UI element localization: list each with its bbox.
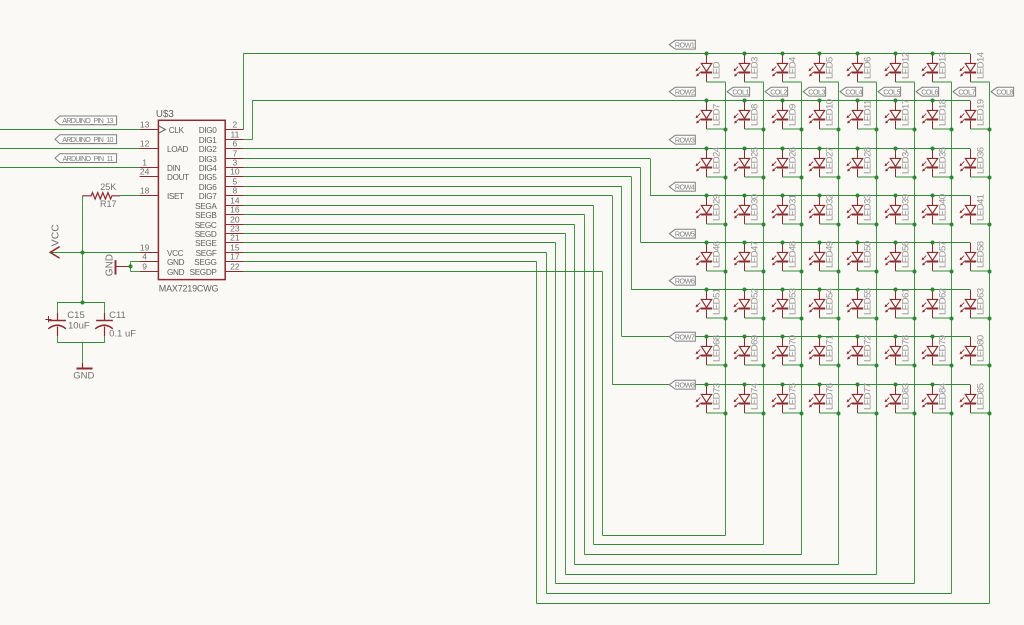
- LED LED36: [960, 147, 990, 177]
- junction row1 led3 anode: [781, 52, 785, 56]
- LED LED35: [922, 147, 952, 177]
- LED LED84: [922, 382, 952, 413]
- junction col4 row5 cathode: [837, 270, 841, 274]
- wire net DIG1/ROW2: [244, 101, 971, 140]
- junction row5 led5 anode: [856, 241, 860, 245]
- svg-text:LED51: LED51: [711, 288, 722, 315]
- junction capacitor rail: [81, 301, 85, 305]
- junction col6 row7 cathode: [913, 364, 917, 368]
- net label flag ROW4: [669, 182, 695, 191]
- svg-text:DIG6: DIG6: [199, 183, 218, 192]
- pin 16 SEGB: [195, 204, 243, 220]
- wire capacitor bottom rail: [58, 342, 105, 344]
- svg-text:LED70: LED70: [787, 335, 798, 362]
- LED LED17: [885, 99, 915, 129]
- svg-text:ISET: ISET: [167, 192, 184, 201]
- junction row6 led2 anode: [743, 288, 747, 292]
- wire net DIG3/ROW4: [244, 159, 971, 196]
- LED LED30: [734, 194, 764, 224]
- wire net SEGA/COL2: [244, 82, 764, 545]
- LED LED6: [847, 54, 877, 82]
- pin 9 GND: [140, 261, 185, 277]
- junction row7 led4 anode: [818, 335, 822, 339]
- junction row4 led3 anode: [781, 194, 785, 198]
- svg-text:COL2: COL2: [770, 87, 787, 96]
- svg-text:LED24: LED24: [711, 146, 722, 174]
- junction row8 led6 anode: [894, 383, 898, 387]
- LED LED74: [734, 382, 764, 413]
- svg-text:LED52: LED52: [749, 288, 760, 315]
- junction col1 row8 cathode: [724, 412, 728, 416]
- junction col4 row4 cathode: [837, 223, 841, 227]
- svg-text:LED17: LED17: [900, 99, 911, 126]
- junction row6 led7 anode: [931, 288, 935, 292]
- pin 17 SEGG: [194, 251, 243, 267]
- wire R17 to ISET: [120, 195, 139, 197]
- svg-text:13: 13: [140, 119, 150, 129]
- junction col6 row5 cathode: [913, 270, 917, 274]
- junction col1 row5 cathode: [724, 270, 728, 274]
- junction row5 led4 anode: [818, 241, 822, 245]
- svg-text:CLK: CLK: [169, 126, 185, 135]
- wire net ARDUINO_PIN_13 to CLK: [0, 129, 140, 131]
- junction row1 led7 anode: [931, 52, 935, 56]
- junction col5 row7 cathode: [875, 364, 879, 368]
- junction row4 led2 anode: [743, 194, 747, 198]
- junction col1 row7 cathode: [724, 364, 728, 368]
- net label flag ROW5: [669, 229, 695, 238]
- svg-text:LOAD: LOAD: [167, 145, 188, 154]
- junction col2 row2 cathode: [762, 128, 766, 132]
- junction col6 row6 cathode: [913, 317, 917, 321]
- junction row7 led6 anode: [894, 335, 898, 339]
- svg-text:DOUT: DOUT: [167, 173, 189, 182]
- svg-text:LED73: LED73: [711, 383, 722, 410]
- svg-text:C11: C11: [109, 310, 126, 321]
- pin 13 CLK: [140, 119, 185, 135]
- wire net DIG7/ROW8: [244, 196, 971, 385]
- LED LED52: [734, 288, 764, 318]
- svg-text:LED9: LED9: [787, 104, 798, 126]
- net label flag COL5: [878, 87, 901, 96]
- LED LED48: [772, 241, 802, 271]
- net label flag ROW1: [669, 40, 695, 49]
- svg-text:MAX7219CWG: MAX7219CWG: [159, 284, 219, 294]
- svg-text:LED19: LED19: [975, 99, 986, 126]
- junction row5 led3 anode: [781, 241, 785, 245]
- junction col1 row2 cathode: [724, 128, 728, 132]
- junction row5 led7 anode: [931, 241, 935, 245]
- svg-text:LED34: LED34: [900, 146, 911, 174]
- junction col8 row7 cathode: [988, 364, 992, 368]
- LED LED69: [734, 335, 764, 365]
- LED LED54: [809, 287, 839, 318]
- svg-text:17: 17: [230, 251, 240, 261]
- wire net SEGE/COL6: [244, 82, 915, 584]
- pin 22 SEGDP: [190, 261, 244, 277]
- svg-text:LED11: LED11: [862, 100, 873, 126]
- svg-text:DIG7: DIG7: [199, 192, 218, 201]
- svg-text:COL4: COL4: [845, 87, 862, 96]
- junction row5 led1 anode: [705, 241, 709, 245]
- junction row3 led6 anode: [894, 147, 898, 151]
- pin 6 DIG2: [199, 138, 244, 154]
- net label flag COL6: [916, 87, 939, 96]
- pin 15 SEGF: [196, 242, 244, 257]
- svg-text:LED49: LED49: [824, 241, 835, 268]
- svg-text:LED80: LED80: [975, 335, 986, 362]
- svg-text:ROW1: ROW1: [675, 40, 695, 49]
- LED LED18: [922, 99, 952, 129]
- LED LED3: [734, 54, 764, 82]
- wire net SEGB/COL3: [244, 82, 802, 555]
- svg-text:LED61: LED61: [900, 288, 911, 315]
- svg-text:LED72: LED72: [862, 335, 873, 362]
- capacitor C15 10uF: [45, 310, 90, 336]
- junction row1 led6 anode: [894, 52, 898, 56]
- svg-text:LED10: LED10: [824, 99, 835, 126]
- power symbol VCC: [50, 224, 62, 258]
- LED LED34: [885, 146, 915, 177]
- svg-text:SEGE: SEGE: [195, 239, 217, 248]
- svg-text:LED14: LED14: [975, 51, 986, 79]
- op IC U3 MAX7219CWG body: [158, 120, 225, 279]
- LED LED41: [960, 194, 990, 224]
- svg-text:LED46: LED46: [711, 241, 722, 268]
- svg-text:LED68: LED68: [711, 335, 722, 362]
- wire net ARDUINO_PIN_10 to LOAD: [0, 148, 140, 150]
- svg-text:24: 24: [140, 166, 150, 176]
- junction row2 led5 anode: [856, 99, 860, 103]
- svg-text:GND: GND: [73, 371, 94, 382]
- svg-text:ARDUINO_PIN_13: ARDUINO_PIN_13: [62, 116, 113, 125]
- junction row4 led6 anode: [894, 194, 898, 198]
- svg-text:LED58: LED58: [975, 241, 986, 268]
- svg-text:LED30: LED30: [749, 194, 760, 221]
- svg-text:ARDUINO_PIN_11: ARDUINO_PIN_11: [62, 154, 113, 163]
- pin 1 DIN: [140, 157, 181, 173]
- svg-text:GND: GND: [167, 258, 185, 267]
- svg-text:LED77: LED77: [862, 383, 873, 410]
- LED LED14: [960, 51, 990, 82]
- junction row1 led1 anode: [705, 52, 709, 56]
- wire C15 top stub: [57, 302, 59, 313]
- LED LED55: [847, 288, 877, 318]
- svg-text:LED63: LED63: [975, 288, 986, 315]
- LED LED31: [772, 194, 802, 224]
- junction col2 row6 cathode: [762, 317, 766, 321]
- junction row4 led7 anode: [931, 194, 935, 198]
- svg-text:LED28: LED28: [862, 147, 873, 174]
- LED LED72: [847, 335, 877, 365]
- junction row1 led5 anode: [856, 52, 860, 56]
- svg-text:VCC: VCC: [50, 224, 62, 247]
- svg-text:ROW5: ROW5: [675, 229, 695, 238]
- junction col4 row8 cathode: [837, 412, 841, 416]
- svg-text:DIG5: DIG5: [199, 173, 218, 182]
- net label flag COL8: [991, 87, 1014, 96]
- LED LED76: [809, 383, 839, 413]
- junction row6 led1 anode: [705, 288, 709, 292]
- svg-text:LED35: LED35: [937, 147, 948, 174]
- junction row7 led3 anode: [781, 335, 785, 339]
- LED LED46: [696, 241, 726, 271]
- svg-text:U$3: U$3: [156, 109, 175, 120]
- svg-text:SEGG: SEGG: [194, 258, 216, 267]
- svg-text:LED33: LED33: [862, 194, 873, 221]
- junction GND pins: [129, 264, 133, 268]
- svg-text:SEGD: SEGD: [195, 230, 217, 239]
- svg-text:LED4: LED4: [787, 56, 798, 79]
- junction col2 row4 cathode: [762, 223, 766, 227]
- LED LED57: [922, 241, 952, 271]
- net label flag COL4: [840, 87, 863, 96]
- junction col7 row4 cathode: [950, 223, 954, 227]
- ground symbol GND (at IC): [104, 254, 130, 276]
- junction col7 row7 cathode: [950, 364, 954, 368]
- CLK clock marker: [158, 126, 165, 134]
- junction col3 row5 cathode: [800, 270, 804, 274]
- wire net DIG0/ROW1: [244, 54, 971, 130]
- svg-text:LED74: LED74: [749, 382, 760, 410]
- junction col1 row3 cathode: [724, 176, 728, 180]
- junction row3 led2 anode: [743, 147, 747, 151]
- junction row2 led2 anode: [743, 99, 747, 103]
- svg-text:10uF: 10uF: [68, 320, 90, 331]
- svg-text:COL8: COL8: [996, 87, 1013, 96]
- pin 24 DOUT: [140, 166, 190, 182]
- LED LED71: [809, 335, 839, 365]
- svg-text:ROW2: ROW2: [675, 87, 695, 96]
- pin 7 DIG3: [199, 148, 244, 164]
- svg-text:LED78: LED78: [900, 335, 911, 362]
- junction col2 row8 cathode: [762, 412, 766, 416]
- svg-text:COL7: COL7: [958, 87, 975, 96]
- LED LED28: [847, 147, 877, 177]
- junction col5 row4 cathode: [875, 223, 879, 227]
- pin 8 DIG7: [199, 185, 244, 201]
- junction row3 led5 anode: [856, 147, 860, 151]
- wire C11 bottom stub: [104, 336, 106, 343]
- pin 11 DIG1: [199, 129, 244, 145]
- junction row6 led6 anode: [894, 288, 898, 292]
- net label flag ROW3: [669, 135, 695, 144]
- svg-text:ROW6: ROW6: [675, 276, 695, 285]
- wire VCC rail vertical: [82, 196, 84, 303]
- junction row3 led4 anode: [818, 147, 822, 151]
- svg-text:8: 8: [233, 185, 238, 195]
- svg-text:ROW4: ROW4: [675, 182, 695, 191]
- junction row6 led3 anode: [781, 288, 785, 292]
- svg-text:GND: GND: [167, 268, 185, 277]
- wire to GND symbol: [82, 343, 84, 363]
- junction col1 row6 cathode: [724, 317, 728, 321]
- junction row6 led5 anode: [856, 288, 860, 292]
- svg-text:LED25: LED25: [749, 147, 760, 174]
- svg-text:LED31: LED31: [787, 194, 798, 221]
- LED LED19: [960, 99, 990, 129]
- svg-text:21: 21: [230, 232, 240, 242]
- junction row8 led2 anode: [743, 383, 747, 387]
- junction col6 row4 cathode: [913, 223, 917, 227]
- wire net SEGG/COL8: [244, 82, 990, 604]
- junction col3 row6 cathode: [800, 317, 804, 321]
- pin 3 DIG4: [199, 157, 244, 173]
- pin 14 SEGA: [195, 195, 243, 211]
- pin 10 DIG5: [199, 166, 244, 182]
- junction col3 row2 cathode: [800, 128, 804, 132]
- svg-text:0.1 uF: 0.1 uF: [109, 328, 136, 339]
- svg-text:LED7: LED7: [711, 104, 722, 126]
- wire C15 bottom stub: [57, 336, 59, 343]
- svg-text:GND: GND: [104, 254, 115, 276]
- svg-text:LED54: LED54: [824, 287, 835, 315]
- svg-text:LED29: LED29: [711, 194, 722, 221]
- net label flag ARDUINO_PIN_11: [55, 154, 117, 163]
- wire net SEGDP/COL1: [244, 82, 726, 536]
- net label flag COL3: [803, 87, 826, 96]
- LED LED63: [960, 288, 990, 318]
- net label flag ARDUINO_PIN_10: [55, 135, 117, 144]
- LED LED25: [734, 147, 764, 177]
- svg-text:COL3: COL3: [808, 87, 825, 96]
- junction col1 row4 cathode: [724, 223, 728, 227]
- net label flag ROW2: [669, 87, 695, 96]
- junction col6 row3 cathode: [913, 176, 917, 180]
- junction row5 led2 anode: [743, 241, 747, 245]
- svg-text:LED47: LED47: [749, 241, 760, 268]
- LED LED27: [809, 147, 839, 177]
- LED LED75: [772, 383, 802, 413]
- svg-text:LED85: LED85: [975, 383, 986, 410]
- svg-text:ROW7: ROW7: [675, 332, 695, 341]
- junction col8 row3 cathode: [988, 176, 992, 180]
- LED LED: [696, 54, 726, 82]
- LED LED83: [885, 383, 915, 413]
- svg-text:LED69: LED69: [749, 335, 760, 362]
- wire net SEGF/COL7: [244, 82, 952, 594]
- wire net VCC horizontal: [51, 252, 140, 254]
- net label flag ARDUINO_PIN_13: [55, 116, 117, 125]
- junction row4 led5 anode: [856, 194, 860, 198]
- junction col6 row8 cathode: [913, 412, 917, 416]
- svg-text:LED12: LED12: [900, 52, 911, 79]
- pin 5 DIG6: [199, 176, 244, 192]
- svg-text:LED26: LED26: [787, 147, 798, 174]
- svg-text:COL1: COL1: [732, 87, 749, 96]
- LED LED73: [696, 383, 726, 413]
- pin 2 DIG0: [199, 119, 244, 135]
- LED LED78: [885, 335, 915, 365]
- wire GND pins loop: [131, 262, 140, 272]
- svg-text:12: 12: [140, 138, 150, 148]
- svg-text:LED71: LED71: [824, 335, 835, 362]
- svg-text:DIG0: DIG0: [199, 126, 218, 135]
- net label flag COL1: [727, 87, 750, 96]
- capacitor C11 0.1 uF: [95, 310, 136, 340]
- LED LED24: [696, 146, 726, 177]
- pin 18 ISET: [140, 185, 185, 201]
- pin 4 GND: [140, 251, 185, 267]
- LED LED50: [847, 241, 877, 271]
- svg-text:SEGC: SEGC: [195, 221, 217, 230]
- junction row7 led5 anode: [856, 335, 860, 339]
- wire net SEGD/COL5: [244, 82, 877, 575]
- svg-text:ROW3: ROW3: [675, 135, 695, 144]
- svg-text:9: 9: [142, 261, 147, 271]
- svg-text:10: 10: [230, 166, 240, 176]
- svg-text:2: 2: [233, 119, 238, 129]
- svg-text:LED8: LED8: [749, 104, 760, 126]
- LED LED4: [772, 54, 802, 82]
- svg-text:16: 16: [230, 204, 240, 214]
- junction col8 row5 cathode: [988, 270, 992, 274]
- LED LED7: [696, 101, 726, 129]
- svg-text:4: 4: [142, 251, 147, 261]
- svg-text:LED27: LED27: [824, 147, 835, 174]
- LED LED53: [772, 288, 802, 318]
- junction col5 row5 cathode: [875, 270, 879, 274]
- junction col5 row2 cathode: [875, 128, 879, 132]
- junction col5 row6 cathode: [875, 317, 879, 321]
- junction row2 led3 anode: [781, 99, 785, 103]
- junction row7 led2 anode: [743, 335, 747, 339]
- LED LED39: [885, 194, 915, 224]
- svg-text:22: 22: [230, 261, 240, 271]
- svg-text:ROW8: ROW8: [675, 380, 695, 389]
- junction col3 row8 cathode: [800, 412, 804, 416]
- junction row3 led3 anode: [781, 147, 785, 151]
- junction col4 row2 cathode: [837, 128, 841, 132]
- svg-text:LED83: LED83: [900, 383, 911, 410]
- junction col8 row4 cathode: [988, 223, 992, 227]
- LED LED62: [922, 288, 952, 318]
- svg-text:LED40: LED40: [937, 194, 948, 221]
- LED LED56: [885, 241, 915, 271]
- LED LED13: [922, 52, 952, 82]
- LED LED8: [734, 101, 764, 129]
- LED LED61: [885, 288, 915, 318]
- wire net DIG2/ROW3: [244, 148, 971, 150]
- svg-text:LED18: LED18: [937, 99, 948, 126]
- junction col2 row7 cathode: [762, 364, 766, 368]
- junction row2 led1 anode: [705, 99, 709, 103]
- svg-text:LED79: LED79: [937, 335, 948, 362]
- svg-text:LED: LED: [711, 61, 722, 79]
- LED LED68: [696, 335, 726, 365]
- junction col6 row2 cathode: [913, 128, 917, 132]
- junction row3 led7 anode: [931, 147, 935, 151]
- svg-text:DIG1: DIG1: [199, 136, 218, 145]
- LED LED85: [960, 383, 990, 413]
- svg-text:LED50: LED50: [862, 241, 873, 268]
- svg-text:LED55: LED55: [862, 288, 873, 315]
- wire net ARDUINO_PIN_11 to DIN: [0, 167, 140, 169]
- net label flag ROW8: [669, 380, 695, 389]
- svg-text:18: 18: [140, 185, 150, 195]
- junction row8 led7 anode: [931, 383, 935, 387]
- wire C11 top stub: [104, 302, 106, 313]
- wire net DIG6/ROW7: [244, 187, 971, 337]
- pin 20 SEGC: [195, 214, 244, 230]
- LED LED70: [772, 335, 802, 365]
- junction row2 led6 anode: [894, 99, 898, 103]
- svg-text:LED39: LED39: [900, 194, 911, 221]
- svg-text:LED53: LED53: [787, 288, 798, 315]
- svg-text:25K: 25K: [100, 182, 116, 192]
- wire capacitor top rail: [58, 302, 105, 304]
- junction col7 row2 cathode: [950, 128, 954, 132]
